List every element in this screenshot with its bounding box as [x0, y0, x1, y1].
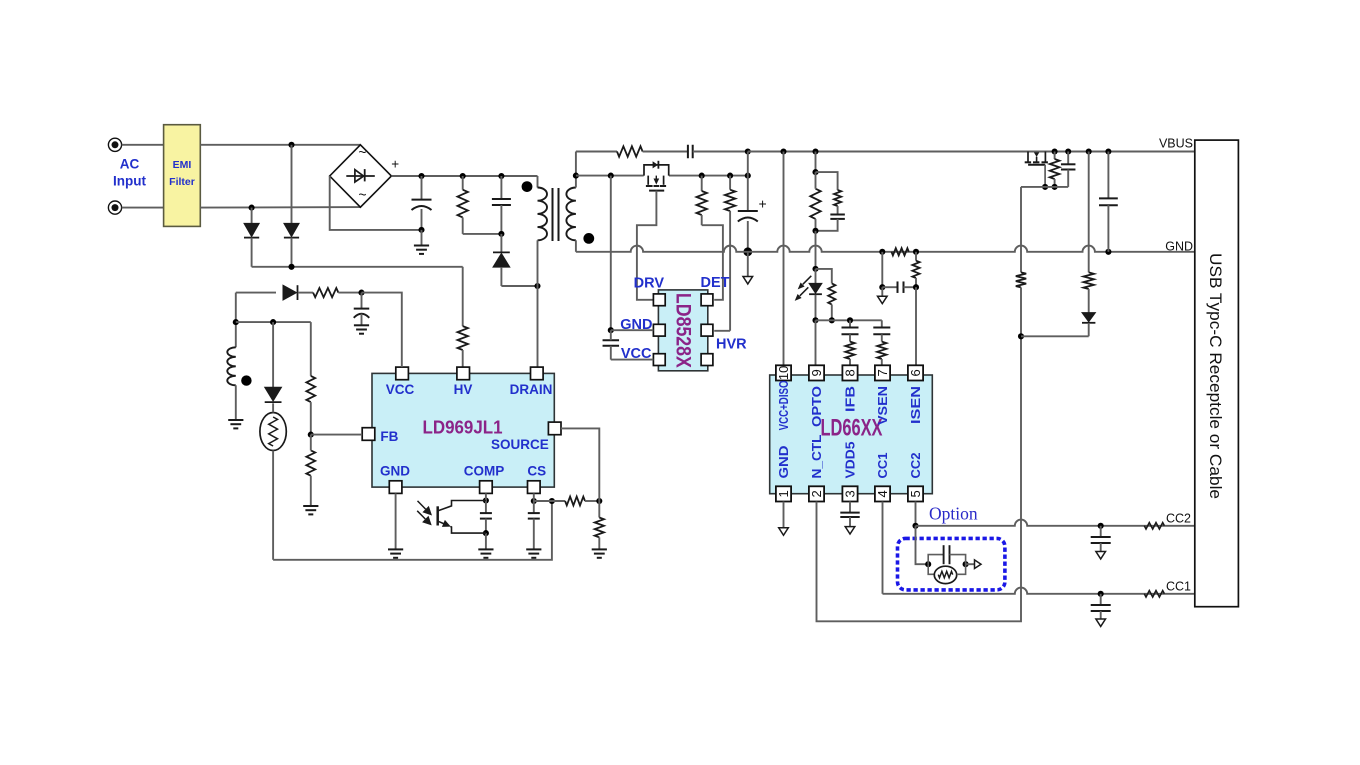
- svg-text:CS: CS: [527, 464, 546, 479]
- svg-text:4: 4: [875, 490, 890, 497]
- svg-text:ISEN: ISEN: [909, 386, 923, 424]
- svg-text:1: 1: [776, 490, 791, 497]
- svg-text:VCC+DISO: VCC+DISO: [777, 380, 791, 430]
- svg-text:GND: GND: [777, 446, 791, 479]
- svg-text:VSEN: VSEN: [876, 386, 890, 425]
- svg-text:+: +: [391, 156, 399, 171]
- svg-text:3: 3: [843, 490, 858, 497]
- svg-text:CC2: CC2: [1166, 512, 1191, 526]
- svg-text:CC2: CC2: [909, 452, 923, 478]
- svg-text:GND: GND: [380, 464, 410, 479]
- svg-text:CC1: CC1: [876, 452, 890, 478]
- svg-text:8: 8: [843, 369, 858, 376]
- svg-text:DET: DET: [701, 275, 730, 291]
- svg-text:IFB: IFB: [844, 386, 858, 412]
- svg-text:7: 7: [875, 369, 890, 376]
- svg-text:DRAIN: DRAIN: [510, 382, 553, 397]
- svg-text:+: +: [759, 196, 767, 212]
- svg-text:USB Typc-C Receptcle or Cable: USB Typc-C Receptcle or Cable: [1206, 253, 1225, 499]
- svg-text:CC1: CC1: [1166, 580, 1191, 594]
- svg-text:SOURCE: SOURCE: [491, 437, 549, 452]
- svg-text:6: 6: [908, 369, 923, 376]
- svg-text:~: ~: [358, 144, 366, 160]
- svg-text:AC: AC: [120, 157, 140, 172]
- svg-text:VCC: VCC: [386, 382, 415, 397]
- svg-text:~: ~: [358, 186, 366, 202]
- svg-text:GND: GND: [1165, 240, 1193, 254]
- svg-text:Option: Option: [929, 504, 978, 524]
- svg-text:10: 10: [776, 366, 791, 380]
- svg-text:OPTO: OPTO: [810, 386, 824, 427]
- svg-text:Input: Input: [113, 174, 146, 189]
- svg-text:5: 5: [908, 490, 923, 497]
- svg-text:DRV: DRV: [634, 276, 665, 292]
- svg-text:HV: HV: [454, 382, 473, 397]
- svg-text:VDD5: VDD5: [844, 441, 858, 478]
- svg-text:Filter: Filter: [169, 176, 195, 188]
- svg-text:HVR: HVR: [716, 337, 747, 353]
- svg-text:LD8528X: LD8528X: [672, 293, 695, 368]
- svg-text:N_CTL: N_CTL: [810, 434, 824, 478]
- svg-text:FB: FB: [380, 429, 398, 444]
- svg-text:VBUS: VBUS: [1159, 137, 1193, 151]
- svg-text:LD969JL1: LD969JL1: [423, 418, 503, 438]
- svg-text:COMP: COMP: [464, 464, 505, 479]
- svg-text:LD66XX: LD66XX: [821, 414, 883, 441]
- svg-text:EMI: EMI: [173, 159, 192, 171]
- svg-text:9: 9: [809, 369, 824, 376]
- svg-text:2: 2: [809, 490, 824, 497]
